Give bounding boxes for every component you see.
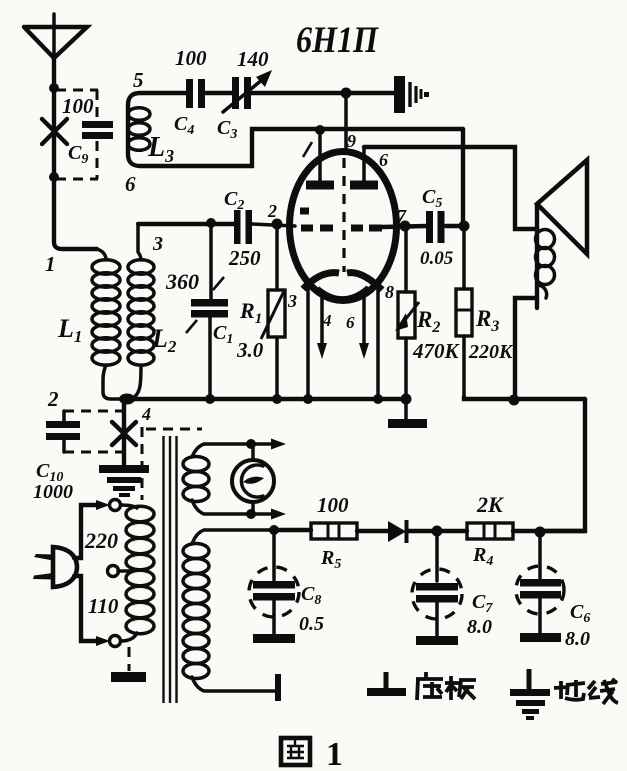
node C8 junction bbox=[269, 525, 279, 535]
svg-text:1: 1 bbox=[45, 252, 56, 276]
wire plug to 220 tap bbox=[74, 505, 97, 558]
inductor L1 bbox=[92, 249, 123, 399]
transformer HV winding bbox=[183, 530, 276, 691]
resistor R4 bbox=[467, 523, 513, 539]
svg-text:360: 360 bbox=[165, 269, 199, 294]
wire pin6 to speaker bbox=[364, 147, 537, 229]
cathode lead pin 3 bbox=[306, 282, 310, 399]
svg-text:9: 9 bbox=[347, 131, 356, 151]
chassis bar below primary bbox=[111, 672, 146, 682]
wire pin7 to C5 bbox=[382, 226, 427, 227]
node bus junction pin3 bbox=[303, 394, 313, 404]
resistor R3 bbox=[456, 226, 472, 397]
cathode triode 1 bbox=[303, 273, 339, 289]
wire speaker return bbox=[515, 298, 537, 400]
node bus junction pin8 bbox=[373, 394, 383, 404]
wire C3 to chassis bbox=[251, 91, 394, 95]
arrow heater top bbox=[251, 439, 286, 450]
anode plate triode 2 bbox=[350, 147, 378, 185]
svg-text:4: 4 bbox=[322, 311, 332, 330]
svg-text:2: 2 bbox=[47, 387, 59, 411]
svg-text:5: 5 bbox=[133, 68, 144, 92]
transformer T1 core bbox=[164, 436, 177, 703]
svg-text:100: 100 bbox=[62, 94, 94, 118]
capacitor C4 plates bbox=[186, 79, 205, 108]
chassis bar end of HV winding bbox=[275, 674, 281, 701]
dashed chassis line near node 4 bbox=[142, 427, 202, 500]
node lamp bottom junction bbox=[246, 509, 256, 519]
tube shield dashed line pin 9 bbox=[342, 158, 345, 272]
transformer filament winding bbox=[183, 444, 251, 514]
resistor R1 bbox=[261, 224, 285, 399]
capacitor C10 dashed box bbox=[64, 411, 122, 452]
wire grid1 from node 2 bbox=[252, 224, 295, 226]
legend earth symbol bbox=[510, 669, 550, 720]
anode plate triode 1 bbox=[306, 129, 334, 185]
capacitor C3 variable plates bbox=[223, 70, 272, 112]
wire ground bus bbox=[125, 397, 408, 401]
tap circle 110 bbox=[110, 636, 121, 647]
node speaker return junction bbox=[509, 395, 520, 406]
chassis symbol top right bbox=[394, 76, 429, 113]
cathode lead pin 8 bbox=[376, 280, 380, 399]
node shield junction bbox=[341, 88, 352, 99]
svg-text:8: 8 bbox=[385, 282, 394, 302]
node C6 junction bbox=[535, 527, 546, 538]
capacitor C6 electrolytic bbox=[516, 532, 564, 642]
svg-text:6: 6 bbox=[125, 172, 136, 196]
wire C5 to node bbox=[446, 224, 464, 228]
speaker horn bbox=[537, 160, 587, 254]
wire diode to C7 node bbox=[407, 529, 467, 533]
wire junction to C10 / ground bbox=[122, 399, 126, 467]
svg-text:100: 100 bbox=[317, 493, 349, 517]
svg-text:220: 220 bbox=[84, 528, 118, 553]
transformer primary winding bbox=[121, 505, 154, 641]
wire C4 to C3 bbox=[205, 91, 232, 95]
grid triode 2 dashes bbox=[351, 225, 382, 232]
wire R5 to diode bbox=[357, 529, 388, 533]
capacitor C9 plates bbox=[82, 121, 113, 139]
speaker coil bbox=[536, 204, 555, 308]
capacitor C5 plates bbox=[426, 211, 445, 243]
X link mark on ground wire bbox=[112, 422, 136, 445]
capacitor C9 dashed box bbox=[56, 90, 98, 179]
svg-text:3: 3 bbox=[287, 291, 297, 311]
inductor L3 loop frame bbox=[128, 93, 463, 166]
wire R3 bottom to B+ corner bbox=[464, 397, 585, 399]
resistor R5 bbox=[311, 523, 357, 539]
capacitor C2 plates bbox=[234, 210, 252, 244]
node lamp top junction bbox=[246, 439, 256, 449]
wire R4 to corner bbox=[513, 529, 585, 533]
svg-text:2K: 2K bbox=[476, 492, 504, 517]
node C1 top junction bbox=[206, 218, 216, 228]
svg-text:8.0: 8.0 bbox=[467, 616, 492, 638]
svg-text:3: 3 bbox=[152, 233, 163, 255]
grid triode 1 dashes bbox=[300, 211, 333, 228]
node C7 junction bbox=[432, 526, 443, 537]
lamp HL1 bbox=[232, 444, 274, 514]
node R2 ground junction bbox=[401, 394, 412, 405]
wire anode1 down to C5 node bbox=[461, 129, 465, 226]
svg-text:100: 100 bbox=[175, 46, 207, 70]
node pin7 junction bbox=[400, 221, 411, 232]
arrow into 220 tap bbox=[96, 500, 110, 510]
wire down to L1 bbox=[54, 177, 97, 249]
svg-text:1000: 1000 bbox=[33, 481, 73, 503]
legend text di ban bbox=[416, 672, 476, 700]
capacitor C7 electrolytic bbox=[412, 531, 462, 645]
svg-text:2: 2 bbox=[267, 201, 277, 221]
svg-text:4: 4 bbox=[141, 404, 151, 424]
tap circle 220 bbox=[110, 500, 121, 511]
node C9 bottom junction bbox=[49, 172, 59, 182]
legend text di xian bbox=[554, 679, 618, 704]
svg-text:140: 140 bbox=[237, 47, 269, 71]
legend chassis symbol bbox=[367, 672, 406, 696]
svg-text:250: 250 bbox=[228, 246, 261, 270]
node C5 R3 junction bbox=[459, 221, 470, 232]
capacitor C10 plates bbox=[46, 421, 80, 440]
antenna bbox=[24, 14, 87, 58]
svg-text:8.0: 8.0 bbox=[565, 628, 590, 650]
svg-text:220K: 220K bbox=[468, 341, 514, 363]
node bus junction C1 bbox=[205, 394, 215, 404]
capacitor C8 electrolytic bbox=[249, 530, 299, 643]
node bus junction R1 bbox=[272, 394, 282, 404]
tap circle middle bbox=[108, 566, 132, 577]
node pin 2 junction bbox=[272, 219, 283, 230]
heater lead pin 4 with arrow bbox=[317, 296, 327, 359]
arrow into 110 tap bbox=[96, 636, 110, 646]
wire antenna to C9 top bbox=[52, 58, 56, 177]
dashed stub below 110 tap bbox=[128, 647, 131, 671]
cathode triode 2 bbox=[347, 273, 382, 290]
ground earth symbol below C10 bbox=[99, 465, 149, 497]
svg-text:6Н1П: 6Н1П bbox=[296, 20, 379, 61]
X link mark on antenna wire bbox=[42, 119, 67, 144]
resistor R2 potentiometer bbox=[395, 226, 419, 399]
wire B plus riser bbox=[540, 399, 585, 531]
arrow heater bottom bbox=[251, 509, 286, 520]
diode D1 bbox=[388, 520, 407, 543]
node antenna junction top bbox=[49, 83, 59, 93]
heater lead pin 5 with arrow bbox=[359, 296, 369, 359]
svg-text:470K: 470K bbox=[412, 339, 461, 363]
plug P1 bbox=[33, 547, 77, 587]
wire L2 top to C2 bbox=[138, 222, 234, 226]
wire shield lead bbox=[344, 93, 348, 152]
wire plug to 110 tap bbox=[74, 576, 97, 641]
svg-text:0.05: 0.05 bbox=[420, 248, 454, 269]
tube U1 envelope bbox=[290, 152, 397, 301]
svg-text:110: 110 bbox=[88, 594, 119, 618]
node L1 L2 bottom junction bbox=[119, 394, 135, 405]
heater arc bbox=[318, 287, 368, 298]
svg-text:6: 6 bbox=[346, 313, 355, 332]
capacitor C1 bbox=[186, 223, 228, 399]
figure label bbox=[281, 736, 343, 771]
wire HV top to R5 bbox=[274, 528, 311, 532]
svg-text:1: 1 bbox=[326, 736, 343, 771]
svg-text:0.5: 0.5 bbox=[299, 613, 324, 635]
pin 1 label bbox=[303, 142, 312, 157]
svg-text:6: 6 bbox=[379, 150, 388, 170]
chassis stub below R2 junction bbox=[388, 399, 427, 428]
inductor L2 bbox=[125, 226, 154, 399]
node pin1 anode junction bbox=[315, 125, 325, 135]
svg-text:3.0: 3.0 bbox=[236, 338, 264, 362]
